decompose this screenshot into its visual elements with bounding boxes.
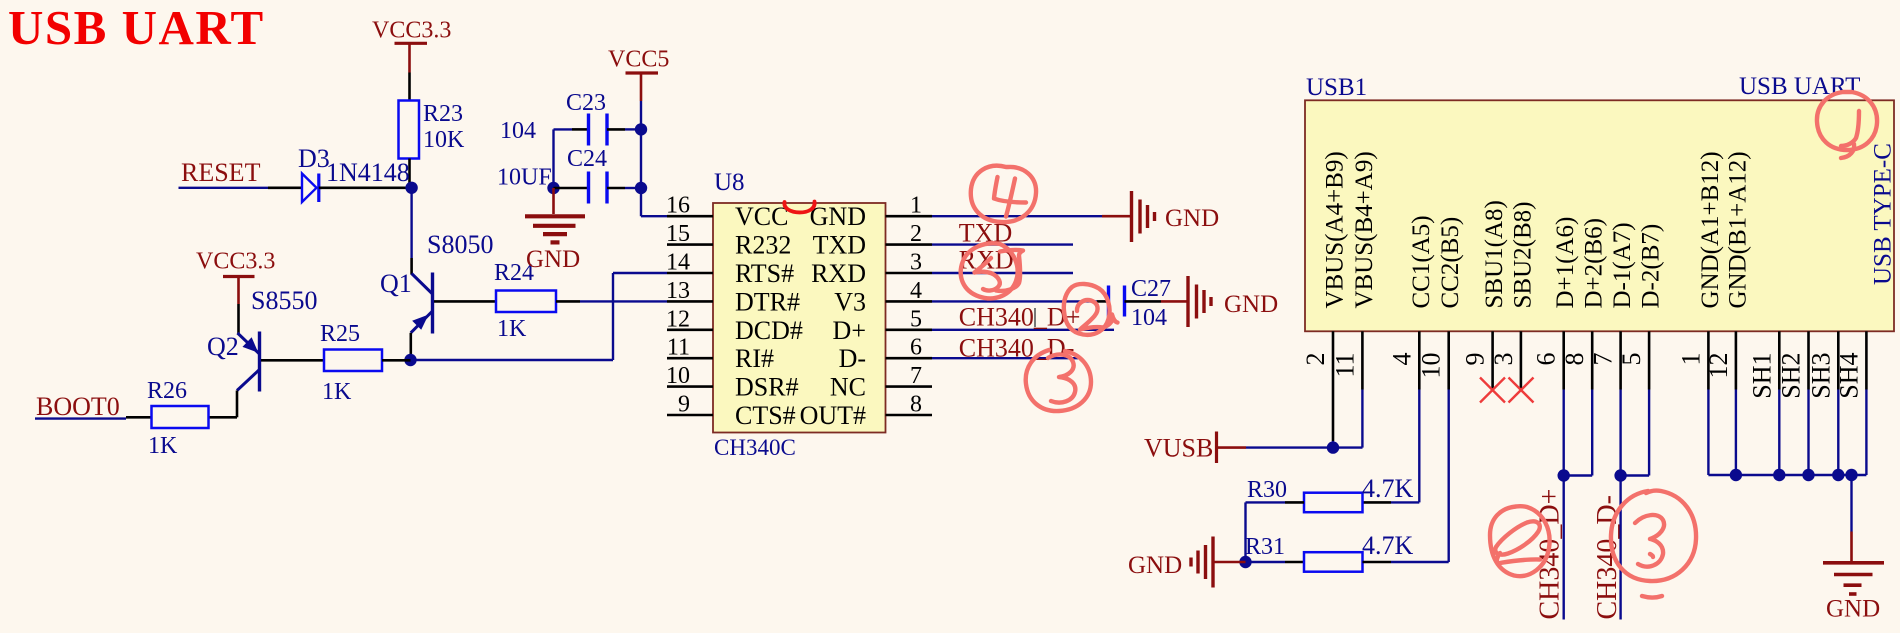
wire R30 left lead bbox=[1285, 501, 1304, 504]
svg-text:7: 7 bbox=[1589, 353, 1618, 366]
wire pin8 down bbox=[1564, 390, 1593, 476]
wire pin1 GND bbox=[932, 215, 1102, 217]
svg-text:1K: 1K bbox=[148, 433, 178, 459]
svg-text:D+1(A6): D+1(A6) bbox=[1552, 217, 1579, 309]
svg-text:4.7K: 4.7K bbox=[1362, 531, 1414, 560]
wire Q2 collector down bbox=[236, 391, 239, 418]
wire R25 to node B bbox=[382, 359, 411, 362]
svg-text:6: 6 bbox=[910, 335, 922, 361]
wire pin11 VBUS down bbox=[1361, 390, 1363, 448]
USB1 pin 12 (GND(B1+A12)) bbox=[1704, 151, 1752, 389]
junction C24 left bbox=[547, 182, 559, 194]
svg-text:3: 3 bbox=[1489, 353, 1518, 366]
wire BOOT0 bbox=[35, 417, 126, 419]
svg-text:RI#: RI# bbox=[735, 344, 774, 373]
resistor R25 bbox=[324, 350, 382, 372]
USB1 pin 7 (D-1(A7)) bbox=[1589, 222, 1637, 389]
svg-text:4.7K: 4.7K bbox=[1362, 474, 1414, 503]
wire riser RTS bbox=[612, 273, 614, 360]
svg-text:CC1(A5): CC1(A5) bbox=[1408, 215, 1435, 308]
U8 pin 12 (DCD#) bbox=[666, 306, 803, 345]
svg-text:3: 3 bbox=[910, 250, 922, 276]
junction GND drop bbox=[1845, 469, 1857, 481]
svg-text:R25: R25 bbox=[320, 321, 360, 347]
wire cap left vertical bbox=[552, 129, 554, 188]
svg-text:C27: C27 bbox=[1131, 276, 1171, 302]
wire VCC5 down bbox=[640, 101, 642, 216]
wire Q2 to R26 bbox=[209, 416, 238, 419]
svg-text:6: 6 bbox=[1532, 353, 1561, 366]
svg-text:GND: GND bbox=[1128, 552, 1182, 579]
wire GND to R31 bbox=[1246, 561, 1286, 563]
junction pin12 bbox=[1730, 469, 1742, 481]
svg-text:D3: D3 bbox=[298, 144, 330, 173]
svg-text:VCC3.3: VCC3.3 bbox=[196, 249, 275, 275]
wire pin1 GND down bbox=[1707, 390, 1709, 476]
resistor R1 R23 bbox=[399, 101, 420, 159]
svg-text:S8050: S8050 bbox=[427, 230, 493, 259]
annotation scribble 5 over RXD bbox=[961, 243, 1023, 298]
wire Q1 collector pin bbox=[410, 258, 413, 275]
USB1 pin SH2 bbox=[1777, 331, 1809, 398]
junction node B bbox=[404, 354, 416, 366]
svg-text:1K: 1K bbox=[497, 316, 527, 342]
junction SH3 bbox=[1832, 469, 1844, 481]
wire to R26 bbox=[126, 416, 152, 419]
U8 pin 3 (RXD) bbox=[811, 250, 932, 289]
wire VUSB to USB1 bbox=[1246, 446, 1363, 448]
svg-text:GND: GND bbox=[1165, 205, 1219, 232]
wire pin3 RXD bbox=[932, 272, 1073, 274]
svg-text:CH340_D-: CH340_D- bbox=[959, 333, 1075, 362]
wire C24 to node bbox=[625, 187, 641, 189]
svg-text:CH340C: CH340C bbox=[714, 435, 796, 460]
svg-text:DTR#: DTR# bbox=[735, 287, 800, 316]
capacitor C24 bbox=[554, 172, 626, 204]
resistor R30 bbox=[1304, 493, 1363, 513]
USB1 pin 6 (D+1(A6)) bbox=[1532, 217, 1580, 390]
wire pin6 D+ down bbox=[1562, 390, 1564, 620]
svg-text:CTS#: CTS# bbox=[735, 401, 796, 430]
diode D3 bbox=[302, 174, 322, 203]
svg-text:USB UART: USB UART bbox=[1739, 73, 1860, 100]
U8 pin 11 (RI#) bbox=[667, 335, 774, 374]
junction SH2 bbox=[1802, 469, 1814, 481]
resistor R26 bbox=[152, 406, 209, 428]
junction SH1 bbox=[1773, 469, 1785, 481]
svg-text:2: 2 bbox=[910, 221, 922, 247]
svg-text:RESET: RESET bbox=[181, 158, 261, 187]
svg-text:12: 12 bbox=[666, 306, 690, 332]
resistor R31 bbox=[1304, 552, 1363, 572]
svg-text:10UF: 10UF bbox=[497, 165, 552, 191]
annotation circled 3 (CH340 D-) bbox=[1611, 491, 1696, 598]
wire R30 to GND corner bbox=[1246, 502, 1286, 562]
USB1 pin 3 (SBU2(B8)) bbox=[1489, 202, 1537, 390]
wire GND drop bbox=[1850, 475, 1852, 532]
svg-text:5: 5 bbox=[1617, 353, 1646, 366]
wire Q1 emitter down bbox=[409, 333, 412, 360]
svg-text:R232: R232 bbox=[735, 231, 791, 260]
wire RESET to D3 bbox=[268, 187, 302, 190]
svg-text:CC2(B5): CC2(B5) bbox=[1437, 217, 1464, 309]
junction D- bbox=[1614, 469, 1626, 481]
svg-text:R31: R31 bbox=[1245, 534, 1285, 560]
svg-text:104: 104 bbox=[1131, 305, 1167, 331]
USB1 pin 8 (D+2(B6)) bbox=[1560, 218, 1608, 389]
svg-text:8: 8 bbox=[910, 392, 922, 418]
svg-text:D-: D- bbox=[839, 344, 866, 373]
junction VUSB bbox=[1327, 441, 1339, 453]
wire D3 to node A bbox=[320, 187, 406, 190]
wire pin6 D- bbox=[932, 357, 1078, 359]
svg-text:8: 8 bbox=[1560, 353, 1589, 366]
USB1 pin 2 (VBUS(A4+B9)) bbox=[1301, 151, 1349, 441]
wire R31 to pin10 bbox=[1391, 390, 1449, 563]
svg-text:VUSB: VUSB bbox=[1144, 434, 1213, 463]
svg-text:D+: D+ bbox=[833, 316, 866, 345]
net port VUSB bbox=[1144, 432, 1246, 464]
connector USB1 body bbox=[1305, 100, 1894, 331]
svg-text:Q2: Q2 bbox=[207, 332, 239, 361]
svg-text:10K: 10K bbox=[423, 127, 465, 153]
junction R31 GND bbox=[1239, 556, 1251, 568]
power VCC3.3 (Q2) bbox=[196, 249, 275, 305]
annotation 2 at D+ bbox=[1064, 284, 1118, 335]
svg-text:SBU1(A8): SBU1(A8) bbox=[1481, 200, 1508, 308]
capacitor C23 bbox=[572, 114, 625, 146]
transistor Q2 bbox=[237, 332, 260, 392]
power VCC5 bbox=[608, 47, 669, 102]
wire SH4 down bbox=[1865, 390, 1867, 476]
svg-text:V3: V3 bbox=[834, 287, 866, 316]
USB1 pin SH3 bbox=[1806, 331, 1838, 398]
USB1 pin 4 (CC1(A5)) bbox=[1387, 215, 1435, 389]
annotation circle 1 (USB1) bbox=[1817, 92, 1877, 158]
U8 pin 9 (CTS#) bbox=[667, 392, 796, 431]
svg-text:9: 9 bbox=[678, 392, 690, 418]
wire C23 left corner bbox=[554, 128, 573, 130]
net label CH340_D+ bbox=[959, 302, 1081, 331]
wire C23 to node bbox=[625, 128, 641, 130]
ground GND (C24) bbox=[525, 188, 585, 273]
wire RESET bbox=[179, 187, 269, 189]
wire to U8 pin13 bbox=[580, 300, 667, 302]
svg-text:5: 5 bbox=[910, 306, 922, 332]
IC U8 body bbox=[713, 203, 886, 433]
wire SH3 down bbox=[1837, 390, 1839, 476]
annotation red arc on U8 bbox=[784, 202, 814, 213]
wire GND bus bbox=[1708, 474, 1866, 476]
svg-text:GND: GND bbox=[526, 246, 580, 273]
USB1 pin 9 (SBU1(A8)) bbox=[1461, 200, 1509, 389]
USB1 pin 11 (VBUS(B4+A9)) bbox=[1330, 151, 1378, 389]
U8 pin 8 (OUT#) bbox=[800, 392, 932, 431]
svg-text:C24: C24 bbox=[567, 146, 607, 172]
wire SH1 down bbox=[1778, 390, 1780, 476]
wire VCC3.3 to R23 bbox=[408, 73, 411, 102]
U8 pin 6 (D-) bbox=[839, 335, 932, 374]
ground GND (pin1) bbox=[1102, 191, 1219, 242]
U8 pin 5 (D+) bbox=[833, 306, 932, 345]
wire VCC3.3 to Q2 bbox=[237, 304, 240, 334]
svg-text:GND(A1+B12): GND(A1+B12) bbox=[1697, 151, 1724, 308]
svg-text:SH2: SH2 bbox=[1777, 353, 1806, 399]
svg-text:R30: R30 bbox=[1247, 477, 1287, 503]
junction C24 right bbox=[635, 182, 647, 194]
svg-text:VCC5: VCC5 bbox=[608, 47, 669, 73]
svg-text:VBUS(B4+A9): VBUS(B4+A9) bbox=[1351, 151, 1378, 308]
resistor R24 bbox=[496, 291, 556, 313]
svg-text:GND: GND bbox=[810, 202, 866, 231]
svg-text:1: 1 bbox=[910, 193, 922, 219]
wire node A down bbox=[410, 188, 412, 258]
svg-text:13: 13 bbox=[666, 278, 690, 304]
wire pin5 down bbox=[1621, 390, 1650, 476]
wire Q1 base to R24 bbox=[434, 300, 496, 303]
svg-text:10: 10 bbox=[1417, 353, 1446, 379]
no-connect X pin9 bbox=[1480, 378, 1505, 403]
wire pin7 D- down bbox=[1619, 390, 1621, 620]
wire R30 right lead bbox=[1363, 501, 1392, 504]
svg-text:RTS#: RTS# bbox=[735, 259, 794, 288]
svg-text:D+2(B6): D+2(B6) bbox=[1581, 218, 1608, 308]
svg-text:9: 9 bbox=[1461, 353, 1490, 366]
junction C23 right bbox=[635, 123, 647, 135]
svg-text:12: 12 bbox=[1704, 353, 1733, 379]
svg-text:D-1(A7): D-1(A7) bbox=[1609, 222, 1636, 308]
U8 pin 13 (DTR#) bbox=[666, 278, 800, 317]
USB1 pin 1 (GND(A1+B12)) bbox=[1676, 151, 1724, 389]
U8 pin 1 (GND) bbox=[810, 193, 932, 232]
U8 pin 4 (V3) bbox=[834, 278, 932, 317]
annotation circled 2 (CH340 D+) bbox=[1490, 506, 1550, 576]
U8 pin 2 (TXD) bbox=[813, 221, 932, 260]
svg-text:1K: 1K bbox=[322, 379, 352, 405]
svg-text:USB UART: USB UART bbox=[8, 0, 265, 55]
svg-text:BOOT0: BOOT0 bbox=[36, 392, 120, 421]
wire riser to pin14 bbox=[613, 272, 667, 274]
svg-text:104: 104 bbox=[500, 118, 536, 144]
wire Q2 base to R25 bbox=[261, 359, 324, 362]
svg-text:TXD: TXD bbox=[813, 231, 866, 260]
ground GND (C27) bbox=[1161, 276, 1278, 327]
svg-text:RXD: RXD bbox=[811, 259, 866, 288]
wire SH2 down bbox=[1807, 390, 1809, 476]
U8 pin 7 (NC) bbox=[830, 363, 932, 402]
power VCC3.3 (R23) bbox=[372, 18, 451, 73]
svg-text:D-2(B7): D-2(B7) bbox=[1638, 224, 1665, 309]
U8 pin 16 (VCC) bbox=[666, 193, 788, 232]
transistor Q1 bbox=[411, 273, 433, 334]
svg-text:4: 4 bbox=[1387, 353, 1416, 366]
wire R23 to node bbox=[408, 159, 411, 184]
wire pin12 down bbox=[1735, 390, 1737, 476]
svg-text:R23: R23 bbox=[423, 101, 463, 127]
wire CC1 to R30 bbox=[1391, 501, 1419, 503]
wire pin2 VBUS down bbox=[1332, 441, 1334, 448]
U8 pin 10 (DSR#) bbox=[666, 363, 799, 402]
USB1 pin SH4 bbox=[1834, 331, 1866, 398]
USB1 pin 5 (D-2(B7)) bbox=[1617, 224, 1665, 390]
svg-text:14: 14 bbox=[666, 250, 690, 276]
wire R31 right lead bbox=[1363, 561, 1392, 564]
svg-text:2: 2 bbox=[1301, 353, 1330, 366]
U8 pin 14 (RTS#) bbox=[666, 250, 794, 289]
wire pin4 CC1 down bbox=[1418, 390, 1420, 503]
wire VCC5 to pin16 bbox=[641, 215, 667, 217]
svg-text:U8: U8 bbox=[714, 169, 745, 196]
USB1 pin 10 (CC2(B5)) bbox=[1417, 217, 1465, 390]
annotation circle 4 bbox=[971, 166, 1036, 222]
svg-text:Q1: Q1 bbox=[380, 269, 412, 298]
svg-text:CH340_D+: CH340_D+ bbox=[1535, 489, 1566, 620]
svg-text:VCC: VCC bbox=[735, 202, 788, 231]
no-connect X pin3 bbox=[1509, 378, 1534, 403]
U8 pin 15 (R232) bbox=[666, 221, 791, 260]
svg-text:1N4148: 1N4148 bbox=[326, 158, 410, 187]
junction D+ bbox=[1558, 469, 1570, 481]
svg-text:GND: GND bbox=[1224, 291, 1278, 318]
ground GND (R31) bbox=[1128, 537, 1246, 588]
svg-text:15: 15 bbox=[666, 221, 690, 247]
svg-text:R26: R26 bbox=[147, 378, 187, 404]
svg-text:4: 4 bbox=[910, 278, 922, 304]
wire R24 to pin13 bbox=[556, 300, 580, 303]
svg-text:SH3: SH3 bbox=[1806, 353, 1835, 399]
svg-text:USB TYPE-C: USB TYPE-C bbox=[1870, 143, 1897, 285]
svg-text:7: 7 bbox=[910, 363, 922, 389]
svg-text:DCD#: DCD# bbox=[735, 316, 803, 345]
ground GND (USB shield) bbox=[1823, 532, 1884, 623]
svg-text:1: 1 bbox=[1676, 353, 1705, 366]
svg-text:GND(B1+A12): GND(B1+A12) bbox=[1724, 151, 1751, 308]
svg-text:VBUS(A4+B9): VBUS(A4+B9) bbox=[1322, 151, 1349, 308]
svg-text:DSR#: DSR# bbox=[735, 373, 799, 402]
svg-text:NC: NC bbox=[830, 373, 866, 402]
wire pin5 D+ bbox=[932, 329, 1114, 331]
svg-text:S8550: S8550 bbox=[251, 286, 317, 315]
svg-text:10: 10 bbox=[666, 363, 690, 389]
wire node B to riser bbox=[411, 359, 614, 361]
wire pin4 to C27 bbox=[932, 300, 1097, 302]
svg-text:11: 11 bbox=[1330, 353, 1359, 378]
capacitor C27 bbox=[1097, 286, 1161, 317]
svg-text:GND: GND bbox=[1826, 596, 1880, 623]
svg-text:16: 16 bbox=[666, 193, 690, 219]
annotation 3 below D- bbox=[1026, 350, 1091, 411]
svg-text:SH1: SH1 bbox=[1747, 353, 1776, 399]
svg-text:C23: C23 bbox=[566, 90, 606, 116]
svg-text:11: 11 bbox=[667, 335, 690, 361]
wire pin2 TXD bbox=[932, 243, 1073, 245]
svg-text:SBU2(B8): SBU2(B8) bbox=[1509, 202, 1536, 309]
svg-text:OUT#: OUT# bbox=[800, 401, 866, 430]
svg-text:USB1: USB1 bbox=[1306, 74, 1367, 101]
junction node A bbox=[405, 182, 417, 194]
wire R31 left lead bbox=[1285, 561, 1304, 564]
svg-text:VCC3.3: VCC3.3 bbox=[372, 18, 451, 44]
USB1 pin SH1 bbox=[1747, 331, 1779, 398]
